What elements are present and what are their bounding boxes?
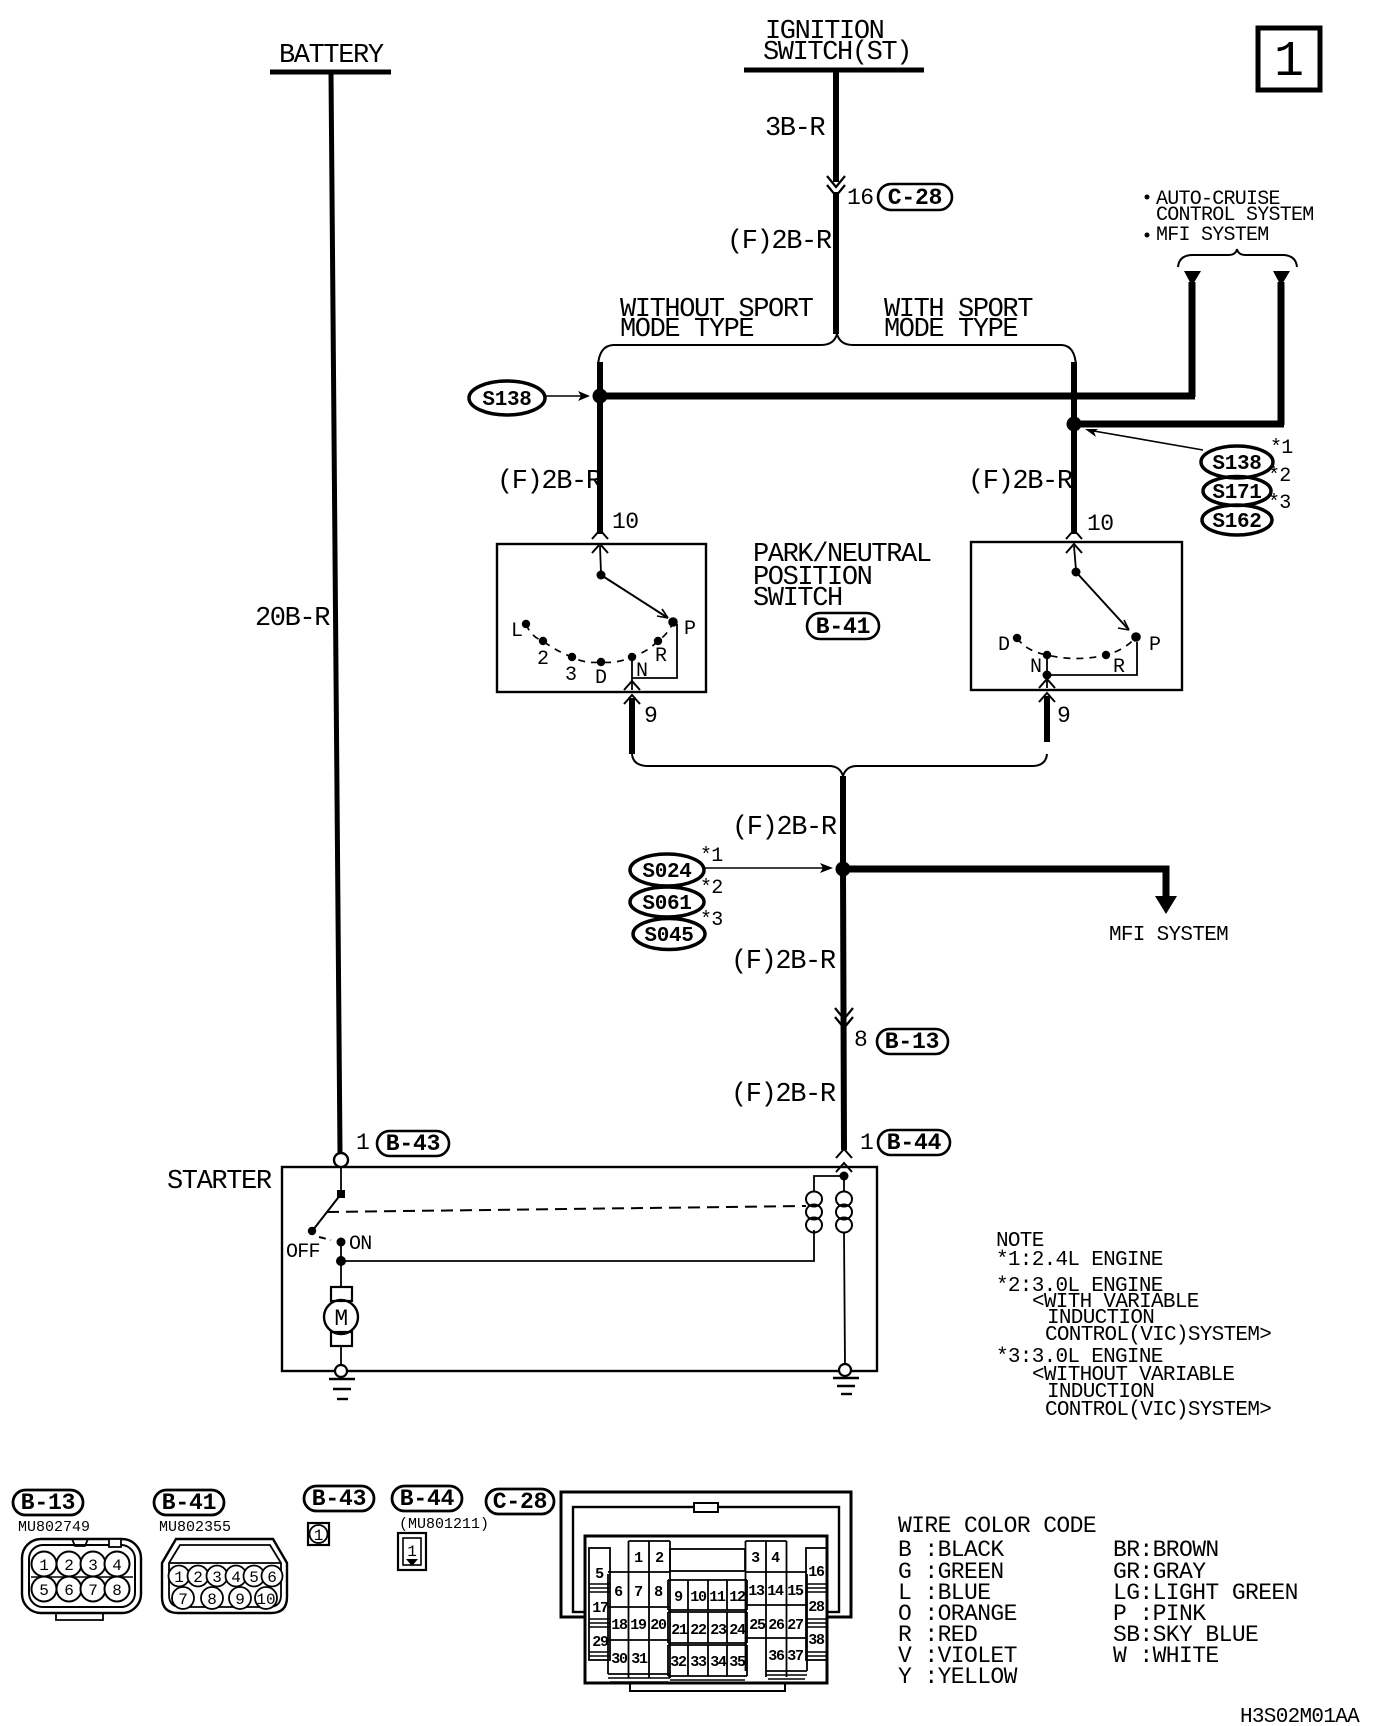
svg-text:2: 2 (537, 648, 548, 671)
wire pin9 left drop (629, 698, 635, 754)
svg-text:8: 8 (112, 1582, 122, 1600)
without sport mode type label (620, 295, 814, 345)
svg-text:*3: *3 (700, 909, 723, 932)
wire B-44 to coils (814, 1174, 844, 1192)
svg-text:5: 5 (249, 1569, 259, 1587)
svg-text:12: 12 (729, 1589, 746, 1606)
B-44 terminal icon (398, 1533, 426, 1570)
asterisk labels right trio (1268, 437, 1293, 515)
svg-text:(MU801211): (MU801211) (399, 1516, 489, 1533)
connector B-41 stadium label (807, 613, 879, 640)
wire ignition 3B-R (833, 70, 839, 182)
B-43 terminal icon (308, 1523, 329, 1545)
svg-text:P: P (1149, 634, 1160, 657)
wire without-sport drop (597, 362, 603, 534)
wire drop to starter (F)2B-R (843, 869, 844, 1150)
wire arrowhead to MFI system (1273, 271, 1290, 286)
svg-text:MU802355: MU802355 (159, 1519, 231, 1536)
svg-text:H3S02M01AA: H3S02M01AA (1240, 1706, 1360, 1726)
connector C-28 drawing (561, 1492, 851, 1691)
wire color code column 2 (1113, 1537, 1298, 1669)
brace splitting sport mode types (598, 334, 1076, 366)
svg-text:1: 1 (39, 1557, 49, 1575)
svg-text:B-13: B-13 (21, 1490, 75, 1516)
svg-text:26: 26 (768, 1617, 785, 1634)
svg-text:5: 5 (39, 1582, 49, 1600)
svg-text:20: 20 (650, 1617, 667, 1634)
connector chevrons pin10 right (1066, 530, 1082, 553)
arrow from S138 to junction (546, 391, 590, 401)
svg-text:2: 2 (64, 1557, 74, 1575)
svg-text:34: 34 (710, 1654, 727, 1671)
solenoid ground terminal (839, 1364, 851, 1376)
right switch: common feed wire (1074, 546, 1076, 570)
arrow from S024 to junction (705, 863, 833, 873)
svg-text:S162: S162 (1212, 511, 1261, 534)
svg-text:10: 10 (256, 1591, 275, 1609)
left switch: common feed wire (600, 546, 601, 573)
svg-text:D: D (998, 634, 1009, 657)
svg-text:21: 21 (671, 1622, 688, 1639)
left switch contacts L 2 3 D N R P (522, 617, 678, 666)
svg-text:CONTROL(VIC)SYSTEM>: CONTROL(VIC)SYSTEM> (1045, 1324, 1271, 1347)
svg-text:M: M (334, 1306, 347, 1332)
svg-text:OFF: OFF (286, 1241, 320, 1264)
connector B-44 stadium label bottom (392, 1486, 462, 1512)
junction node with-sport (1067, 417, 1082, 432)
connector chevrons B-44 entry (836, 1149, 852, 1172)
connector B-13 stadium label bottom (13, 1490, 83, 1516)
svg-text:R: R (655, 645, 667, 668)
svg-text:8: 8 (654, 1584, 663, 1601)
splice ovals S138/S171/S162 (1201, 446, 1273, 535)
svg-text:CONTROL(VIC)SYSTEM>: CONTROL(VIC)SYSTEM> (1045, 1399, 1271, 1422)
C-28 pin numbers (592, 1550, 825, 1671)
connector B-43 stadium label (377, 1131, 449, 1157)
brace over auto-cruise wires (1178, 249, 1297, 267)
svg-text:(F)2B-R: (F)2B-R (497, 467, 602, 497)
junction node motor feed (336, 1256, 346, 1266)
svg-text:11: 11 (709, 1589, 726, 1606)
svg-text:9: 9 (235, 1591, 245, 1609)
B-41 pin circles row2 (172, 1587, 277, 1609)
starter solenoid control dashes (327, 1206, 806, 1212)
svg-text:N: N (636, 660, 647, 683)
svg-text:2: 2 (655, 1550, 664, 1567)
svg-text:C-28: C-28 (888, 185, 942, 211)
splice ovals S024/S061/S045 (630, 854, 705, 950)
svg-text:3: 3 (751, 1550, 760, 1567)
C-28 stripe lines (589, 1584, 827, 1682)
svg-text:B-13: B-13 (885, 1029, 939, 1055)
B-43 terminal circle (334, 1153, 348, 1167)
wire merged drop to junction (840, 776, 846, 870)
svg-text:28: 28 (808, 1599, 825, 1616)
starter box (282, 1167, 877, 1371)
motor M (324, 1261, 358, 1366)
right switch N-P link wire (1047, 642, 1137, 675)
svg-text:24: 24 (729, 1622, 746, 1639)
connector B-41 stadium label bottom (154, 1490, 224, 1516)
svg-text:13: 13 (748, 1583, 765, 1600)
park/neutral position switch box left (497, 544, 706, 692)
B-13 pin circles row1 (32, 1552, 130, 1577)
B-13 pin circles row2 (32, 1577, 130, 1602)
svg-text:8: 8 (207, 1591, 217, 1609)
svg-text:8: 8 (854, 1027, 867, 1053)
svg-text:6: 6 (267, 1569, 277, 1587)
svg-text:9: 9 (674, 1589, 683, 1606)
connector C-28 stadium label bottom (486, 1489, 554, 1515)
svg-text:L: L (511, 620, 522, 643)
wire to auto-cruise branch (1189, 282, 1196, 397)
brace merging pin9 wires (632, 754, 1047, 776)
svg-text:29: 29 (592, 1634, 609, 1651)
connector chevrons pin9 left (624, 681, 640, 704)
page number box (1258, 28, 1320, 91)
wire ignition (F)2B-R (833, 192, 839, 334)
svg-text:(F)2B-R: (F)2B-R (731, 947, 836, 977)
svg-text:36: 36 (768, 1648, 785, 1665)
B-41 pin circles row1 (169, 1566, 283, 1587)
connector C-28 stadium label (878, 184, 952, 211)
svg-text:9: 9 (644, 703, 657, 729)
starter switch link dash (319, 1237, 331, 1240)
svg-text:33: 33 (690, 1654, 707, 1671)
svg-text:22: 22 (690, 1622, 707, 1639)
connector B-44 stadium label (878, 1130, 950, 1156)
svg-text:23: 23 (710, 1622, 727, 1639)
svg-text:14: 14 (767, 1583, 784, 1600)
bus wire to MFI system arrow (843, 869, 1166, 898)
svg-text:35: 35 (729, 1654, 746, 1671)
svg-text:STARTER: STARTER (167, 1167, 272, 1197)
wire to MFI branch (1278, 282, 1285, 425)
svg-text:4: 4 (231, 1569, 241, 1587)
svg-text:SWITCH: SWITCH (753, 584, 842, 614)
svg-text:SWITCH(ST): SWITCH(ST) (763, 38, 911, 68)
junction node coils (840, 1172, 849, 1181)
right switch output wire pin 9 (1046, 675, 1048, 688)
svg-text:Y :YELLOW: Y :YELLOW (898, 1664, 1018, 1690)
park/neutral position switch label (753, 540, 931, 614)
svg-text:15: 15 (787, 1583, 804, 1600)
svg-text:3: 3 (212, 1569, 222, 1587)
svg-text:*1: *1 (700, 845, 723, 868)
solenoid coil left (806, 1192, 822, 1233)
battery terminal bar (270, 70, 391, 75)
svg-text:17: 17 (592, 1600, 608, 1617)
svg-text:3: 3 (565, 664, 576, 687)
wire pin9 right drop (1044, 696, 1050, 742)
svg-text:27: 27 (787, 1617, 803, 1634)
svg-text:(F)2B-R: (F)2B-R (968, 467, 1073, 497)
svg-text:MU802749: MU802749 (18, 1519, 90, 1536)
splice S138 oval label (469, 381, 545, 415)
svg-text:25: 25 (749, 1617, 766, 1634)
ignition switch label (763, 17, 911, 68)
right switch contact arc dashed (1017, 637, 1136, 659)
svg-text:1: 1 (860, 1130, 873, 1156)
svg-text:S024: S024 (642, 861, 691, 884)
wire arrowhead to auto-cruise (1184, 271, 1201, 286)
svg-text:6: 6 (614, 1584, 623, 1601)
svg-text:4: 4 (112, 1557, 122, 1575)
right switch junction node (1043, 671, 1052, 680)
motor ground terminal (335, 1365, 347, 1377)
svg-text:19: 19 (630, 1617, 647, 1634)
svg-text:BATTERY: BATTERY (279, 41, 384, 71)
wire with-sport drop (1071, 362, 1077, 534)
svg-text:(F)2B-R: (F)2B-R (732, 813, 837, 843)
wire battery to starter B-43 (20B-R) (331, 72, 340, 1153)
svg-text:N: N (1030, 656, 1041, 679)
svg-text:4: 4 (771, 1550, 780, 1567)
connector B-41 drawing (162, 1539, 287, 1613)
wire color code column 1 (898, 1537, 1018, 1690)
asterisk labels middle trio (700, 845, 723, 932)
left switch blade to P (601, 575, 668, 618)
svg-text:B-41: B-41 (162, 1490, 216, 1516)
svg-text:C-28: C-28 (493, 1489, 547, 1515)
svg-text:B-44: B-44 (400, 1486, 455, 1512)
bus wire S138 horizontal (600, 393, 1195, 400)
svg-text:1: 1 (1274, 34, 1304, 91)
svg-text:16: 16 (808, 1564, 825, 1581)
left switch N-P link wire (632, 624, 677, 678)
svg-text:W :WHITE: W :WHITE (1113, 1643, 1219, 1669)
ground solenoid (833, 1378, 859, 1394)
right switch contact labels (998, 634, 1160, 679)
svg-text:18: 18 (611, 1617, 628, 1634)
connector chevrons pin9 right (1039, 679, 1055, 702)
svg-text:B-44: B-44 (887, 1130, 942, 1156)
starter ON contact (337, 1238, 346, 1247)
svg-text:*1: *1 (1270, 437, 1293, 460)
starter switch blade (313, 1194, 341, 1230)
svg-text:MFI SYSTEM: MFI SYSTEM (1156, 224, 1269, 247)
svg-text:7: 7 (634, 1584, 642, 1601)
svg-text:10: 10 (1087, 511, 1113, 537)
wire right coil to ground (844, 1232, 845, 1365)
svg-text:P: P (684, 618, 695, 641)
svg-text:MFI SYSTEM: MFI SYSTEM (1109, 924, 1228, 947)
svg-text:*2: *2 (700, 877, 723, 900)
wire to solenoid coil bottom (341, 1230, 814, 1261)
B-13 pin numbers (39, 1557, 122, 1600)
svg-text:1: 1 (634, 1550, 643, 1567)
svg-text:1: 1 (174, 1569, 184, 1587)
B-41 pin numbers (174, 1569, 277, 1609)
svg-text:S138: S138 (482, 389, 531, 412)
svg-text:5: 5 (595, 1566, 604, 1583)
svg-text:3B-R: 3B-R (765, 114, 825, 144)
left switch contact arc dashed (526, 622, 673, 662)
svg-text:2: 2 (193, 1569, 203, 1587)
right switch contacts D N R P (1013, 632, 1141, 659)
junction node S024 (836, 862, 851, 877)
svg-text:37: 37 (787, 1648, 803, 1665)
svg-text:S171: S171 (1212, 482, 1261, 505)
svg-text:30: 30 (611, 1651, 628, 1668)
connector B-13 stadium label (877, 1029, 948, 1055)
svg-text:D: D (595, 667, 606, 690)
ignition terminal bar (744, 68, 924, 73)
svg-text:3: 3 (88, 1557, 98, 1575)
svg-text:S061: S061 (642, 893, 691, 916)
svg-text:B-43: B-43 (312, 1486, 366, 1512)
right switch common contact (1072, 568, 1081, 577)
svg-text:10: 10 (612, 509, 638, 535)
svg-text:16: 16 (847, 185, 873, 211)
with sport mode type label (884, 295, 1033, 345)
svg-text:*2: *2 (1268, 465, 1291, 488)
note text (996, 1230, 1271, 1422)
starter switch pivot contact (337, 1190, 345, 1198)
starter switch blade tip (308, 1227, 316, 1235)
svg-text:9: 9 (1057, 703, 1070, 729)
svg-text:B-41: B-41 (816, 614, 870, 640)
solenoid coil right (836, 1192, 852, 1233)
connector B-43 stadium label bottom (304, 1486, 374, 1512)
park/neutral position switch box right (971, 542, 1182, 690)
svg-text:(F)2B-R: (F)2B-R (727, 227, 832, 257)
auto-cruise / MFI system note (1145, 188, 1314, 247)
svg-text:31: 31 (631, 1651, 648, 1668)
svg-text:20B-R: 20B-R (255, 604, 330, 634)
svg-text:7: 7 (88, 1582, 98, 1600)
svg-text:6: 6 (64, 1582, 74, 1600)
junction node S138 (593, 389, 608, 404)
svg-text:MODE TYPE: MODE TYPE (620, 315, 753, 345)
svg-text:1: 1 (314, 1527, 324, 1545)
svg-text:WIRE COLOR CODE: WIRE COLOR CODE (898, 1513, 1096, 1539)
ground motor (329, 1379, 355, 1399)
svg-text:1: 1 (407, 1543, 417, 1561)
arrowhead MFI system (1155, 896, 1177, 914)
svg-text:1: 1 (356, 1130, 369, 1156)
bus wire to MFI branch (1074, 421, 1284, 428)
svg-text:(F)2B-R: (F)2B-R (731, 1080, 836, 1110)
svg-text:*1:2.4L ENGINE: *1:2.4L ENGINE (996, 1249, 1163, 1272)
arrow from splice trio to junction (1085, 429, 1203, 450)
wire ON to motor junction (340, 1242, 342, 1262)
svg-text:38: 38 (808, 1632, 825, 1649)
svg-text:10: 10 (690, 1589, 707, 1606)
svg-text:32: 32 (670, 1654, 687, 1671)
connector C-28 inline chevrons pin 16 (827, 176, 845, 196)
svg-text:S138: S138 (1212, 453, 1261, 476)
svg-text:MODE TYPE: MODE TYPE (884, 315, 1017, 345)
left switch common contact (597, 571, 606, 580)
left switch output wire pin 9 (631, 678, 633, 690)
connector B-13 inline chevrons pin 8 (835, 1008, 853, 1028)
svg-text:S045: S045 (644, 925, 693, 948)
svg-text:*3: *3 (1268, 492, 1291, 515)
svg-text:ON: ON (349, 1233, 372, 1256)
left switch contact labels (511, 618, 695, 690)
svg-text:B-43: B-43 (386, 1131, 440, 1157)
connector B-13 drawing (22, 1539, 141, 1620)
connector chevrons pin10 left (592, 530, 608, 553)
C-28 pin grid columns (589, 1541, 827, 1678)
svg-text:7: 7 (178, 1591, 188, 1609)
starter switch feed wire (340, 1167, 342, 1193)
right switch blade to P (1076, 572, 1129, 630)
